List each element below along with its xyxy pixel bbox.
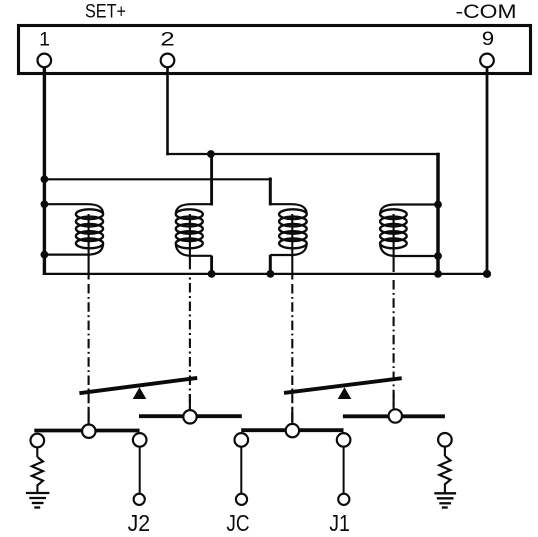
junction node coil4 bottom [434, 252, 442, 260]
contact terminal circle J2 [133, 433, 147, 447]
pivot triangle left [133, 387, 147, 399]
contact terminal circle JC [235, 433, 249, 447]
pin 2 terminal circle [161, 54, 175, 68]
resistor R2 [439, 456, 450, 493]
contact bar NO right [343, 414, 445, 418]
wire bottom bus [43, 273, 489, 275]
junction node pin9 bus [483, 270, 491, 278]
pivot triangle right [338, 387, 352, 399]
svg-text:2: 2 [160, 28, 175, 50]
armature lever left [79, 378, 197, 393]
armature lever right [284, 378, 402, 393]
svg-text:J2: J2 [128, 510, 151, 536]
mechanical link from coil L3 (dash-dot) [291, 214, 293, 423]
connector block outline [19, 26, 531, 74]
junction node coil4 bus [434, 270, 442, 278]
pivot circle bar2 [183, 410, 196, 423]
pin 1 terminal circle [38, 54, 52, 68]
wire coil3 top drop [269, 178, 272, 206]
contact terminal circle J1 [337, 433, 351, 447]
mechanical link from coil L2 (dash-dot) [189, 214, 191, 410]
wire J2 drop [139, 447, 141, 493]
wire right resistor drop [444, 447, 446, 456]
coil L2 [176, 204, 212, 256]
pivot circle bar1 [82, 425, 95, 438]
terminal circle J2 [134, 494, 145, 505]
junction node coil3 bus [267, 270, 275, 278]
mechanical link from coil L1 (dash-dot) [88, 214, 90, 424]
junction node coil1 top [41, 200, 49, 208]
junction node coil2 branch [207, 150, 215, 158]
svg-text:SET+: SET+ [85, 2, 126, 23]
coil L3 [270, 204, 306, 255]
contact bar common right [241, 428, 343, 432]
mechanical link from coil L4 (dash-dot) [393, 214, 395, 409]
pivot circle bar3 [286, 424, 299, 437]
junction node coil2 bus [208, 270, 216, 278]
terminal circle JC [236, 494, 247, 505]
wire J1 drop [343, 447, 345, 493]
contact bar common left [34, 429, 139, 433]
wire pin2 vertical [166, 66, 169, 155]
resistor R1 [32, 457, 43, 493]
wire horizontal pin2 to coil4 branch [166, 153, 439, 155]
coil L1 [44, 204, 103, 254]
svg-text:1: 1 [39, 28, 50, 50]
junction node coil4 top [434, 201, 442, 209]
svg-text:J1: J1 [329, 510, 350, 536]
wire pin1 vertical [43, 66, 46, 275]
junction node pin1/branch [41, 175, 49, 183]
junction node coil1 bottom [41, 251, 49, 259]
svg-text:9: 9 [482, 28, 494, 50]
wire coil4 side rail [436, 153, 440, 275]
terminal circle J1 [338, 494, 349, 505]
wire horizontal pin1 branch to coil3 [43, 178, 272, 180]
wire coil3 bottom drop [269, 255, 272, 275]
ground left [26, 493, 50, 508]
svg-text:-COM: -COM [456, 2, 517, 23]
wire coil2 top drop [210, 153, 213, 206]
pivot circle bar4 [389, 409, 402, 422]
contact bar NO left [139, 414, 242, 418]
wire coil2 bottom drop [210, 256, 213, 275]
wire JC drop [240, 447, 242, 493]
contact terminal circle right resistor [438, 433, 452, 447]
coil L4 [380, 205, 438, 257]
pin 9 terminal circle [480, 54, 494, 68]
wire pin9 vertical [486, 66, 489, 275]
contact terminal circle left resistor [31, 434, 45, 448]
wire left resistor drop [36, 447, 38, 457]
svg-text:JC: JC [226, 510, 249, 536]
ground right [434, 493, 456, 507]
